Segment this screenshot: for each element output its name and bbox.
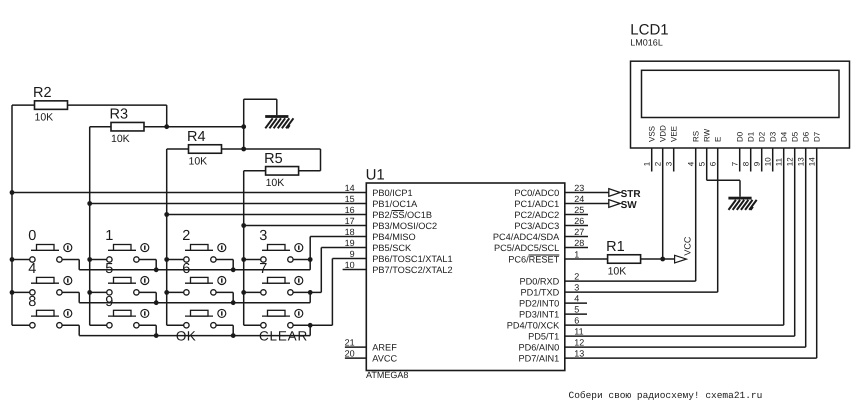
svg-text:PC5/ADC5/SCL: PC5/ADC5/SCL <box>494 243 559 253</box>
U1 pin 24 PC1/ADC1 <box>514 194 584 209</box>
svg-text:5: 5 <box>574 305 579 315</box>
wire: column 4 vertical <box>243 171 245 325</box>
LCD1 LM016L display <box>630 21 849 148</box>
U1 pin 28 PC5/ADC5/SCL <box>494 238 584 253</box>
wire: AREF pin21 stub <box>345 346 366 348</box>
wire button 0 left stub <box>12 259 30 261</box>
U1 pin 3 PD1/TXD <box>520 283 579 298</box>
U1 pin 11 PD5/T1 <box>528 327 584 342</box>
wire: PC0 to STR <box>565 192 609 194</box>
U1 pin 18 PB4/MISO <box>345 227 416 242</box>
svg-text:PC1/ADC1: PC1/ADC1 <box>514 199 559 209</box>
svg-text:R1: R1 <box>606 239 625 255</box>
svg-text:11: 11 <box>775 157 784 166</box>
svg-text:PB7/TOSC2/XTAL2: PB7/TOSC2/XTAL2 <box>372 265 452 275</box>
pushbutton 6 <box>182 261 226 295</box>
svg-text:7: 7 <box>731 161 740 166</box>
svg-text:5: 5 <box>698 161 707 166</box>
U1 pin 15 PB1/OC1A <box>345 194 419 209</box>
svg-text:7: 7 <box>259 261 267 277</box>
svg-text:14: 14 <box>345 183 355 193</box>
resistor R2 <box>33 85 68 123</box>
node col3 row1 <box>164 257 169 262</box>
wire row2 btn0 jog <box>62 291 79 293</box>
svg-text:Собери свою радиосхему! cxema2: Собери свою радиосхему! cxema21.ru <box>569 390 763 401</box>
svg-text:24: 24 <box>574 194 584 204</box>
svg-text:PB1/OC1A: PB1/OC1A <box>372 199 418 209</box>
svg-text:PD6/AIN0: PD6/AIN0 <box>518 342 559 352</box>
svg-text:PD1/TXD: PD1/TXD <box>520 287 559 297</box>
svg-text:R2: R2 <box>33 85 52 101</box>
wire button 1 left stub <box>90 259 107 261</box>
node: gnd net <box>241 124 246 129</box>
overline PC6/RESET <box>529 254 560 256</box>
wire R4 left <box>167 148 189 150</box>
svg-text:D1: D1 <box>747 131 756 142</box>
wire button CLEAR left stub <box>244 324 261 326</box>
LCD pin 13 D6 <box>797 131 811 166</box>
wire: pin 25 stub <box>565 214 588 216</box>
svg-text:VDD: VDD <box>659 125 668 142</box>
wire gnd net vertical <box>243 99 245 149</box>
wire row1 btn0 jog <box>62 259 79 261</box>
pushbutton 3 <box>259 228 303 262</box>
wire: col4 to PB3 pin 17 <box>244 225 367 227</box>
svg-text:ATMEGA8: ATMEGA8 <box>366 370 408 380</box>
svg-text:LCD1: LCD1 <box>630 21 668 38</box>
svg-text:2: 2 <box>182 228 190 244</box>
svg-text:9: 9 <box>350 249 355 259</box>
svg-text:14: 14 <box>808 157 817 166</box>
pushbutton CLEAR <box>259 309 308 343</box>
node: R2/R3 junction <box>164 124 169 129</box>
svg-text:RS: RS <box>692 131 701 142</box>
resistor R3 <box>110 107 145 145</box>
U1 pin 16 PB2/SS/OC1B <box>345 205 432 220</box>
wire: LCD D4 to U1 pin 6 <box>783 148 785 325</box>
wire R4 right / R5 loop horizontal <box>222 148 321 150</box>
resistor R5 <box>264 151 299 189</box>
op-amp U1 ATMEGA8 microcontroller <box>366 167 565 381</box>
node col1 row2 <box>10 290 15 295</box>
svg-text:21: 21 <box>345 338 355 348</box>
svg-text:D0: D0 <box>736 131 745 142</box>
wire: keypad row 2 horizontal <box>79 302 310 304</box>
node col2 row2 <box>87 290 92 295</box>
svg-text:5: 5 <box>105 261 113 277</box>
pushbutton 4 <box>28 261 72 295</box>
svg-text:6: 6 <box>574 316 579 326</box>
svg-text:PC0/ADC0: PC0/ADC0 <box>514 188 559 198</box>
svg-text:PB3/MOSI/OC2: PB3/MOSI/OC2 <box>372 221 437 231</box>
U1 pin 12 PD6/AIN0 <box>518 338 584 353</box>
wire row3 btn0 jog <box>62 324 79 326</box>
wire button 6 left stub <box>167 291 184 293</box>
wire: column 1 vertical <box>11 105 13 325</box>
svg-text:20: 20 <box>345 349 355 359</box>
ground symbol (resistor network) <box>265 115 293 128</box>
svg-text:PB0/ICP1: PB0/ICP1 <box>372 188 412 198</box>
wire: pin 26 stub <box>565 225 588 227</box>
wire: keypad row 3 horizontal <box>79 335 310 337</box>
wire button 3 left stub <box>244 259 261 261</box>
svg-text:STR: STR <box>621 189 642 200</box>
LCD pin 7 D0 <box>731 131 745 166</box>
wire row2 btn3 jog <box>293 291 310 293</box>
pushbutton 0 <box>28 228 72 262</box>
wire button 9 left stub <box>90 324 107 326</box>
wire: col1 to PB0 pin 14 <box>12 192 366 194</box>
svg-text:2: 2 <box>654 161 663 166</box>
LCD pin 8 D1 <box>742 131 756 166</box>
svg-text:10K: 10K <box>608 265 627 277</box>
svg-text:4: 4 <box>687 161 696 166</box>
svg-text:1: 1 <box>643 161 652 166</box>
svg-text:23: 23 <box>574 183 584 193</box>
wire row2 btn1 jog <box>139 291 156 293</box>
svg-text:1: 1 <box>574 250 579 260</box>
pushbutton OK <box>176 309 226 343</box>
node col2/PB1 <box>87 201 92 206</box>
svg-text:PC4/ADC4/SDA: PC4/ADC4/SDA <box>493 232 560 242</box>
off-page arrow SW <box>609 200 637 211</box>
wire button 7 left stub <box>244 291 261 293</box>
pushbutton 9 <box>105 294 149 328</box>
svg-text:PD2/INT0: PD2/INT0 <box>519 298 559 308</box>
wire: LCD D5 to U1 pin 11 <box>794 148 796 336</box>
U1 pin 17 PB3/MOSI/OC2 <box>345 216 438 231</box>
wire: LCD VSS stub <box>651 148 653 172</box>
svg-text:10K: 10K <box>111 133 130 145</box>
U1 pin 1 PC6/RESET <box>508 250 579 265</box>
wire: col2 to PB1 pin 15 <box>90 203 367 205</box>
node: VDD/R1/VCC junction <box>660 257 665 262</box>
node col1 row1 <box>10 257 15 262</box>
U1 pin 19 PB5/SCK <box>345 238 412 253</box>
LCD pin 14 D7 <box>808 131 822 166</box>
svg-text:8: 8 <box>28 294 36 310</box>
svg-text:17: 17 <box>345 216 355 226</box>
wire: pin 4 stub <box>565 302 587 304</box>
wire: PC6/RESET to R1 <box>565 258 608 260</box>
svg-text:3: 3 <box>665 161 674 166</box>
svg-text:PC3/ADC3: PC3/ADC3 <box>514 221 559 231</box>
svg-text:19: 19 <box>345 238 355 248</box>
off-page arrow STR <box>609 189 642 200</box>
svg-text:AVCC: AVCC <box>372 353 397 363</box>
LCD pin 1 VSS <box>643 126 657 166</box>
wire button 8 left stub <box>12 324 30 326</box>
U1 pin 14 PB0/ICP1 <box>345 183 413 198</box>
pushbutton 1 <box>105 228 149 262</box>
svg-text:D3: D3 <box>769 131 778 142</box>
resistor R4 <box>187 129 222 167</box>
svg-text:PB2/SS/OC1B: PB2/SS/OC1B <box>372 210 432 220</box>
wire: LCD VDD to VCC <box>662 148 664 259</box>
svg-text:PB5/SCK: PB5/SCK <box>372 243 412 253</box>
svg-text:18: 18 <box>345 227 355 237</box>
wire row1 btn3 jog <box>293 259 310 261</box>
wire: LCD D0 stub <box>739 148 741 172</box>
svg-text:27: 27 <box>574 227 584 237</box>
svg-text:D5: D5 <box>791 131 800 142</box>
wire R5 left <box>244 170 266 172</box>
svg-text:10: 10 <box>764 157 773 166</box>
U1 pin 13 PD7/AIN1 <box>518 349 584 364</box>
wire row3 btn2 jog <box>216 324 233 326</box>
svg-text:PD3/INT1: PD3/INT1 <box>519 309 559 319</box>
svg-text:SW: SW <box>621 200 638 211</box>
wire: LCD RW to ground <box>706 148 708 180</box>
svg-text:15: 15 <box>345 194 355 204</box>
svg-text:6: 6 <box>709 161 718 166</box>
svg-text:4: 4 <box>574 294 579 304</box>
svg-text:4: 4 <box>28 261 36 277</box>
LCD pin 12 D5 <box>786 131 800 166</box>
wire: LCD D3 stub <box>772 148 774 172</box>
svg-text:VEE: VEE <box>670 126 679 142</box>
wire: column 2 vertical <box>89 127 91 326</box>
wire: row 1 riser to PB4 <box>309 237 311 260</box>
wire R2 right to gnd node <box>68 104 167 106</box>
pushbutton 2 <box>182 228 226 262</box>
svg-text:1: 1 <box>105 228 113 244</box>
U1 pin 20 AVCC <box>345 349 398 364</box>
svg-text:26: 26 <box>574 216 584 226</box>
svg-text:6: 6 <box>182 261 190 277</box>
svg-text:PD5/T1: PD5/T1 <box>528 331 559 341</box>
resistor R1 <box>606 239 641 277</box>
svg-text:PC6/RESET: PC6/RESET <box>508 254 559 264</box>
wire row1 btn2 jog <box>216 259 233 261</box>
node col2 row1 <box>87 257 92 262</box>
node: R4/R5 gnd junction <box>241 147 246 152</box>
svg-text:3: 3 <box>574 283 579 293</box>
U1 pin 25 PC2/ADC2 <box>514 205 584 220</box>
wire row1 btn1 jog <box>139 259 156 261</box>
svg-text:AREF: AREF <box>372 342 397 352</box>
wire: PB7 pin10 stub <box>343 269 367 271</box>
pushbutton 7 <box>259 261 303 295</box>
wire R5 right loop <box>299 170 321 172</box>
svg-text:PD0/RXD: PD0/RXD <box>519 276 559 286</box>
wire: column 3 vertical <box>166 149 168 325</box>
svg-text:R3: R3 <box>110 107 129 123</box>
svg-text:10K: 10K <box>266 177 285 189</box>
U1 pin 26 PC3/ADC3 <box>514 216 584 231</box>
wire: keypad row 1 horizontal <box>79 269 310 271</box>
svg-text:9: 9 <box>105 294 113 310</box>
U1 pin 6 PD4/T0/XCK <box>507 316 580 331</box>
node col3 row2 <box>164 290 169 295</box>
svg-text:10: 10 <box>345 260 355 270</box>
wire button 5 left stub <box>90 291 107 293</box>
svg-text:10K: 10K <box>189 155 208 167</box>
svg-text:PB4/MISO: PB4/MISO <box>372 232 415 242</box>
svg-text:3: 3 <box>259 228 267 244</box>
svg-text:13: 13 <box>797 157 806 166</box>
wire: pin 27 stub <box>565 236 588 238</box>
wire R3 left <box>90 126 111 128</box>
svg-text:PD7/AIN1: PD7/AIN1 <box>518 353 559 363</box>
wire: row 2 riser to PB5 <box>310 291 321 293</box>
U1 pin 21 AREF <box>345 338 398 353</box>
wire button 2 left stub <box>167 259 184 261</box>
svg-text:PC2/ADC2: PC2/ADC2 <box>514 210 559 220</box>
svg-text:PB6/TOSC1/XTAL1: PB6/TOSC1/XTAL1 <box>372 254 452 264</box>
node col1/PB0 <box>10 190 15 195</box>
wire: AVCC pin20 stub <box>345 357 366 359</box>
svg-text:11: 11 <box>574 327 583 337</box>
wire: row 3 riser to PB6 <box>310 324 332 326</box>
svg-text:0: 0 <box>28 228 36 244</box>
wire R2 left <box>12 104 35 106</box>
LCD pin 11 D4 <box>775 131 789 166</box>
node col4/PB3 <box>241 223 246 228</box>
svg-text:8: 8 <box>742 161 751 166</box>
U1 pin 27 PC4/ADC4/SDA <box>493 227 584 242</box>
U1 pin 5 PD3/INT1 <box>519 305 579 320</box>
overline PB2/SS <box>392 210 404 212</box>
wire: LCD D2 stub <box>761 148 763 172</box>
LCD pin 5 RW <box>698 128 712 166</box>
U1 pin 9 PB6/TOSC1/XTAL1 <box>350 249 453 264</box>
wire: LCD RS to PD0 pin 2 <box>695 148 697 281</box>
wire: LCD E to PD1 pin 3 <box>717 148 719 292</box>
svg-text:R4: R4 <box>187 129 206 145</box>
U1 pin 2 PD0/RXD <box>519 272 579 287</box>
svg-text:PD4/T0/XCK: PD4/T0/XCK <box>507 320 560 330</box>
wire button OK left stub <box>167 324 184 326</box>
wire R3 right <box>144 126 167 128</box>
wire row2 btn2 jog <box>216 291 233 293</box>
U1 pin 23 PC0/ADC0 <box>514 183 584 198</box>
svg-text:VSS: VSS <box>648 126 657 142</box>
svg-text:VCC: VCC <box>682 236 692 256</box>
node col3/PB2 <box>164 212 169 217</box>
svg-text:9: 9 <box>753 161 762 166</box>
wire button 4 left stub <box>12 291 30 293</box>
node col4 row1 <box>241 257 246 262</box>
wire: R1 to VCC <box>641 258 675 260</box>
U1 pin 4 PD2/INT0 <box>519 294 579 309</box>
wire: LCD D1 stub <box>750 148 752 172</box>
svg-text:12: 12 <box>574 338 584 348</box>
svg-text:D4: D4 <box>780 131 789 142</box>
svg-text:25: 25 <box>574 205 584 215</box>
wire: col3 to PB2 pin 16 <box>167 214 367 216</box>
LCD pin 10 D3 <box>764 131 778 166</box>
svg-text:28: 28 <box>574 238 584 248</box>
svg-text:U1: U1 <box>366 167 385 184</box>
svg-text:E: E <box>714 137 723 142</box>
svg-text:D2: D2 <box>758 131 767 142</box>
svg-text:2: 2 <box>574 272 579 282</box>
wire: pin 5 stub <box>565 313 587 315</box>
svg-text:16: 16 <box>345 205 355 215</box>
LCD pin 9 D2 <box>753 131 767 166</box>
svg-text:D7: D7 <box>813 131 822 142</box>
LCD pin 3 VEE <box>665 126 679 166</box>
ground symbol (LCD RW) <box>728 197 756 210</box>
svg-text:RW: RW <box>703 128 712 142</box>
wire: LCD D6 to U1 pin 12 <box>805 148 807 347</box>
svg-text:R5: R5 <box>264 151 283 167</box>
wire: LCD VEE stub <box>673 148 675 172</box>
LCD pin 2 VDD <box>654 125 668 166</box>
wire row3 btn1 jog <box>139 324 156 326</box>
U1 pin 10 PB7/TOSC2/XTAL2 <box>345 260 453 275</box>
LCD pin 4 RS <box>687 131 701 166</box>
wire row3 btn3 jog <box>293 324 310 326</box>
svg-text:13: 13 <box>574 349 584 359</box>
wire: pin 28 stub <box>565 247 588 249</box>
node col4 row2 <box>241 290 246 295</box>
wire: LCD D7 to U1 pin 13 <box>816 148 818 358</box>
svg-text:D6: D6 <box>802 131 811 142</box>
LCD pin 6 E <box>709 137 723 167</box>
svg-text:12: 12 <box>786 157 795 166</box>
power symbol VCC <box>675 236 693 263</box>
wire to ground symbol <box>244 98 277 100</box>
wire gnd net horizontal <box>167 126 244 128</box>
wire: PC1 to SW <box>565 203 609 205</box>
pushbutton 5 <box>105 261 149 295</box>
svg-text:LM016L: LM016L <box>630 38 663 48</box>
pushbutton 8 <box>28 294 72 328</box>
svg-text:10K: 10K <box>35 111 54 123</box>
